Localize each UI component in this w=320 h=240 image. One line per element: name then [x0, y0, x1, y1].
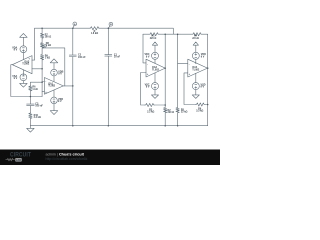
resistor R10 — [29, 112, 32, 125]
node A flag — [73, 22, 77, 26]
wire R4 to output column — [202, 34, 208, 126]
svg-text:admin | Chua’s circuit: admin | Chua’s circuit — [46, 152, 85, 156]
wire R1 to R4 — [159, 33, 192, 35]
svg-text:100 nF: 100 nF — [35, 105, 43, 108]
capacitor C3 — [27, 97, 35, 113]
wire OA2 to VSC — [154, 73, 156, 83]
wire R6 top to column — [30, 82, 42, 85]
voltage source VDD — [192, 52, 199, 59]
svg-text:-: - — [29, 70, 30, 73]
svg-text:TL082: TL082 — [152, 68, 160, 71]
wire OA4 +in to R6b — [184, 73, 196, 105]
voltage source VDB — [51, 69, 58, 76]
svg-text:9 V: 9 V — [201, 86, 205, 89]
svg-text:TL082: TL082 — [22, 63, 30, 66]
wire top bus — [35, 27, 90, 29]
wire R1 lead to -input — [143, 34, 146, 63]
svg-text:LAB: LAB — [16, 158, 22, 162]
watermark bar — [0, 150, 220, 166]
svg-text:TL082: TL082 — [192, 68, 200, 71]
svg-text:2.2 kΩ: 2.2 kΩ — [147, 111, 154, 114]
op-amp OA1 — [44, 78, 63, 95]
op-amp OA4 — [188, 59, 208, 77]
resistor R (1.8k) — [90, 27, 100, 30]
ground (VSA) — [20, 81, 28, 88]
ground (VSD) — [192, 90, 199, 99]
voltage source VDC — [152, 52, 159, 59]
svg-text:TL082: TL082 — [48, 85, 56, 88]
svg-text:-: - — [189, 63, 190, 66]
svg-text:-: - — [45, 81, 46, 84]
svg-text:100 Ω: 100 Ω — [45, 36, 52, 39]
resistor R1 — [149, 33, 159, 36]
svg-text:1 kΩ: 1 kΩ — [46, 44, 51, 47]
svg-text:10 nF: 10 nF — [114, 56, 121, 59]
ground (R10) — [27, 126, 35, 132]
resistor R3 — [145, 103, 155, 106]
svg-text:9 V: 9 V — [146, 55, 150, 58]
ground flag up (VDD) — [193, 42, 198, 45]
wire R1 row — [143, 33, 149, 35]
wire +input to R3 — [141, 73, 146, 106]
resistor R6b — [196, 103, 205, 106]
svg-text:220 Ω: 220 Ω — [150, 37, 157, 40]
wire VDC to OA2 — [154, 59, 156, 63]
svg-text:1 kΩ: 1 kΩ — [45, 57, 50, 60]
logo LAB chip — [15, 158, 22, 162]
svg-text:9 V: 9 V — [14, 49, 18, 52]
op-amp OA2 — [146, 59, 165, 77]
ground (VSB) — [50, 104, 58, 115]
voltage source VSD — [192, 83, 199, 90]
ground flag up (VDB) — [50, 59, 58, 63]
svg-text:1 kΩ: 1 kΩ — [32, 88, 37, 91]
svg-text:9 V: 9 V — [146, 86, 150, 89]
wire OA3 output loop — [11, 65, 42, 97]
capacitor C1 — [105, 28, 112, 126]
svg-text:22 kΩ: 22 kΩ — [192, 37, 199, 40]
wire R3 to R2 column — [155, 104, 166, 106]
wire OA1 output — [63, 85, 73, 87]
svg-text:3.3 kΩ: 3.3 kΩ — [196, 110, 203, 113]
voltage source VDA — [20, 46, 27, 53]
wire VDB to OA1 — [53, 76, 55, 81]
op-amp OA3 — [12, 56, 32, 74]
voltage source VSC — [152, 83, 159, 90]
wire OA3 -input to column — [32, 68, 42, 70]
resistor R6 — [29, 86, 32, 97]
voltage source VSA — [20, 74, 27, 81]
svg-text:-: - — [147, 63, 148, 66]
svg-text:1.8 kΩ: 1.8 kΩ — [91, 32, 98, 35]
svg-text:2.2 kΩ: 2.2 kΩ — [34, 116, 41, 119]
wire OA3 to VSA — [22, 70, 24, 74]
node B flag — [109, 22, 113, 26]
resistor R7 — [40, 28, 43, 42]
svg-text:220 Ω: 220 Ω — [168, 111, 175, 114]
wire bottom bus — [30, 125, 207, 127]
voltage source VSB — [51, 97, 58, 104]
wire pot wiper — [42, 48, 64, 86]
wire VDA to OA3 — [22, 53, 24, 60]
wire -input drop right stack — [178, 34, 188, 63]
ground (VSC) — [151, 90, 158, 99]
resistor R9 — [40, 54, 43, 97]
svg-text:9 V: 9 V — [14, 77, 18, 80]
ground flag up (VDA) — [20, 34, 28, 38]
wire VDD to OA4 — [195, 59, 197, 63]
logo resistor zigzag — [6, 159, 15, 161]
wire R6b to output column — [205, 104, 208, 106]
junction dots — [30, 27, 209, 126]
component labels — [12, 23, 206, 119]
svg-text:9 V: 9 V — [58, 100, 62, 103]
svg-text:22 kΩ: 22 kΩ — [181, 111, 188, 114]
wire bus to right block — [100, 28, 174, 34]
wire bus corner to OA3 +input — [32, 28, 35, 60]
wire OA4 to VSD — [195, 73, 197, 82]
svg-text:9 V: 9 V — [201, 55, 205, 58]
wire OA1 to VSB — [53, 90, 55, 97]
wire feedback column left stack — [164, 34, 166, 105]
resistor R2 — [164, 105, 167, 126]
svg-text:100 nF: 100 nF — [78, 56, 86, 59]
svg-text:9 V: 9 V — [58, 73, 62, 76]
resistor R5 — [176, 63, 179, 125]
wire OA1 inputs — [42, 82, 44, 92]
potentiometer R8 — [40, 42, 43, 54]
svg-text:http://circuitlab.com/c/kw6k: http://circuitlab.com/c/kw6k — [46, 157, 88, 161]
capacitor C2 — [69, 28, 76, 126]
ground flag up (VDC) — [152, 42, 157, 45]
resistor R4 — [192, 33, 202, 36]
